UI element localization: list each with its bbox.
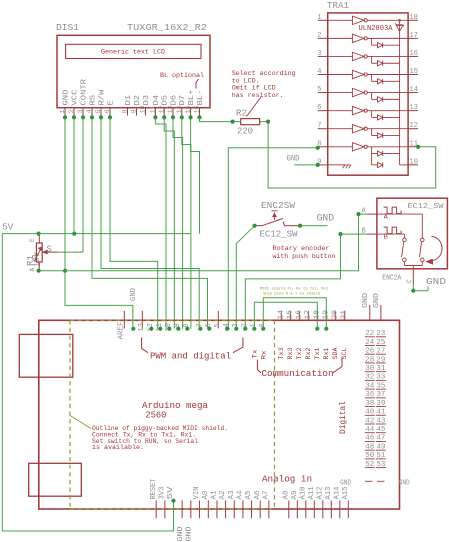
svg-text:A4: A4	[237, 491, 245, 500]
svg-text:13: 13	[167, 105, 174, 113]
svg-text:5: 5	[317, 86, 321, 94]
svg-text:GND: GND	[186, 527, 194, 542]
svg-text:16: 16	[295, 310, 303, 320]
svg-text:3: 3	[77, 109, 84, 113]
svg-text:A7: A7	[262, 491, 270, 500]
svg-text:A9: A9	[291, 491, 299, 500]
svg-text:is available.: is available.	[92, 444, 144, 451]
svg-text:E: E	[107, 100, 115, 105]
svg-text:A12: A12	[316, 487, 324, 500]
svg-text:E: E	[29, 238, 36, 242]
svg-text:RS: RS	[89, 95, 97, 106]
svg-text:D1: D1	[125, 95, 133, 106]
svg-text:MIDI shield Tx, Rx to Tx1, Rx1: MIDI shield Tx, Rx to Tx1, Rx1	[260, 287, 329, 292]
svg-text:5: 5	[95, 109, 102, 113]
svg-text:Tx3: Tx3	[278, 348, 286, 360]
svg-text:Rotary encoder: Rotary encoder	[273, 245, 330, 253]
svg-text:Rx3: Rx3	[287, 348, 295, 360]
svg-text:9: 9	[131, 109, 138, 113]
svg-text:Snip pins 0 & 1 on shield: Snip pins 0 & 1 on shield	[263, 292, 320, 297]
svg-text:Rx1: Rx1	[323, 348, 331, 360]
svg-text:1: 1	[59, 109, 66, 113]
svg-text:Generic text LCD: Generic text LCD	[101, 49, 165, 57]
svg-text:2560: 2560	[145, 410, 166, 421]
svg-text:5: 5	[214, 323, 222, 327]
svg-text:GND: GND	[177, 527, 185, 542]
svg-text:BL+: BL+	[188, 90, 196, 106]
svg-text:A8: A8	[282, 491, 290, 500]
svg-text:Tx1: Tx1	[314, 348, 322, 360]
svg-text:Communication: Communication	[262, 368, 334, 379]
svg-text:A2: A2	[219, 491, 227, 500]
svg-text:20: 20	[331, 310, 339, 320]
svg-text:15: 15	[410, 68, 418, 76]
svg-text:D2: D2	[134, 95, 142, 106]
svg-text:GND: GND	[399, 480, 410, 488]
svg-text:R2: R2	[236, 109, 247, 119]
svg-text:4: 4	[317, 68, 321, 76]
svg-text:2: 2	[317, 32, 321, 40]
svg-text:TUXGR_16X2_R2: TUXGR_16X2_R2	[127, 23, 207, 33]
svg-text:A11: A11	[308, 487, 316, 500]
svg-text:R/W: R/W	[98, 89, 106, 106]
svg-text:DIS1: DIS1	[56, 23, 79, 33]
svg-text:BL-: BL-	[197, 90, 205, 106]
svg-text:16: 16	[194, 105, 201, 113]
svg-text:D6: D6	[170, 95, 178, 106]
svg-text:5V: 5V	[167, 485, 175, 499]
svg-text:D5: D5	[162, 95, 170, 106]
svg-text:TRA1: TRA1	[327, 1, 349, 11]
svg-text:A0: A0	[202, 491, 210, 500]
svg-text:D4: D4	[153, 95, 161, 106]
svg-text:14: 14	[277, 310, 285, 320]
svg-text:A13: A13	[325, 487, 333, 500]
svg-text:A: A	[29, 268, 36, 272]
svg-text:6: 6	[317, 104, 321, 112]
svg-text:EC12_SW: EC12_SW	[260, 229, 298, 240]
svg-text:ENC2A: ENC2A	[382, 275, 402, 283]
svg-text:1: 1	[317, 14, 321, 22]
svg-text:Analog in: Analog in	[262, 474, 312, 485]
svg-text:13: 13	[138, 323, 146, 331]
svg-text:7: 7	[317, 122, 321, 130]
svg-text:4: 4	[86, 109, 93, 113]
svg-text:17: 17	[410, 32, 418, 40]
svg-text:RESET: RESET	[150, 479, 158, 500]
svg-text:13: 13	[410, 104, 418, 112]
svg-text:Digital: Digital	[340, 401, 348, 434]
svg-text:C: C	[406, 279, 413, 283]
svg-text:BL optional: BL optional	[160, 72, 204, 80]
svg-text:A6: A6	[254, 491, 262, 500]
svg-text:18: 18	[410, 14, 418, 22]
svg-text:SDA: SDA	[332, 347, 340, 360]
svg-text:Tx2: Tx2	[296, 348, 304, 360]
svg-text:GND: GND	[317, 213, 335, 224]
svg-text:2: 2	[68, 109, 75, 113]
svg-text:3V3: 3V3	[158, 487, 166, 500]
svg-text:EC12_SW: EC12_SW	[408, 203, 445, 211]
svg-text:11: 11	[150, 105, 157, 113]
svg-text:GND: GND	[362, 293, 370, 308]
svg-text:6: 6	[104, 109, 111, 113]
svg-text:PWM and digital: PWM and digital	[150, 351, 231, 362]
svg-text:21: 21	[340, 310, 348, 320]
svg-text:D7: D7	[179, 95, 187, 106]
svg-text:15: 15	[286, 310, 294, 320]
svg-text:A3: A3	[228, 491, 236, 500]
svg-text:14: 14	[410, 86, 418, 94]
svg-text:GND: GND	[130, 288, 138, 301]
svg-text:A14: A14	[333, 487, 341, 500]
svg-text:ENC2SW: ENC2SW	[261, 200, 295, 211]
svg-text:Rx: Rx	[261, 351, 269, 360]
svg-text:220: 220	[237, 127, 253, 137]
svg-text:12: 12	[410, 122, 418, 130]
svg-text:15: 15	[185, 105, 192, 113]
svg-text:D3: D3	[143, 95, 151, 106]
svg-text:GND: GND	[287, 155, 300, 164]
svg-text:Rx2: Rx2	[305, 348, 313, 360]
svg-text:5V: 5V	[2, 222, 13, 233]
svg-text:8: 8	[122, 109, 129, 113]
svg-text:VIN: VIN	[193, 487, 201, 500]
svg-text:3: 3	[317, 50, 321, 58]
svg-text:GND: GND	[62, 90, 70, 106]
svg-text:10: 10	[410, 158, 418, 166]
svg-text:with push button: with push button	[273, 253, 336, 261]
svg-text:has resistor.: has resistor.	[232, 92, 284, 100]
svg-text:GND: GND	[426, 276, 446, 287]
svg-text:GND: GND	[373, 293, 381, 308]
svg-text:GND: GND	[340, 480, 351, 488]
svg-text:12: 12	[158, 105, 165, 113]
svg-text:A10: A10	[299, 487, 307, 500]
svg-text:A1: A1	[211, 491, 219, 500]
svg-text:Tx: Tx	[252, 350, 260, 359]
svg-text:VCC: VCC	[71, 89, 79, 106]
svg-text:17: 17	[304, 310, 312, 320]
svg-text:16: 16	[410, 50, 418, 58]
svg-text:A15: A15	[342, 487, 350, 500]
svg-text:CONTR: CONTR	[80, 78, 88, 105]
svg-text:10: 10	[140, 105, 147, 113]
svg-text:14: 14	[176, 105, 183, 113]
svg-text:A5: A5	[245, 491, 253, 500]
svg-text:ULN2803A: ULN2803A	[359, 25, 394, 33]
svg-text:AREF: AREF	[118, 322, 126, 340]
